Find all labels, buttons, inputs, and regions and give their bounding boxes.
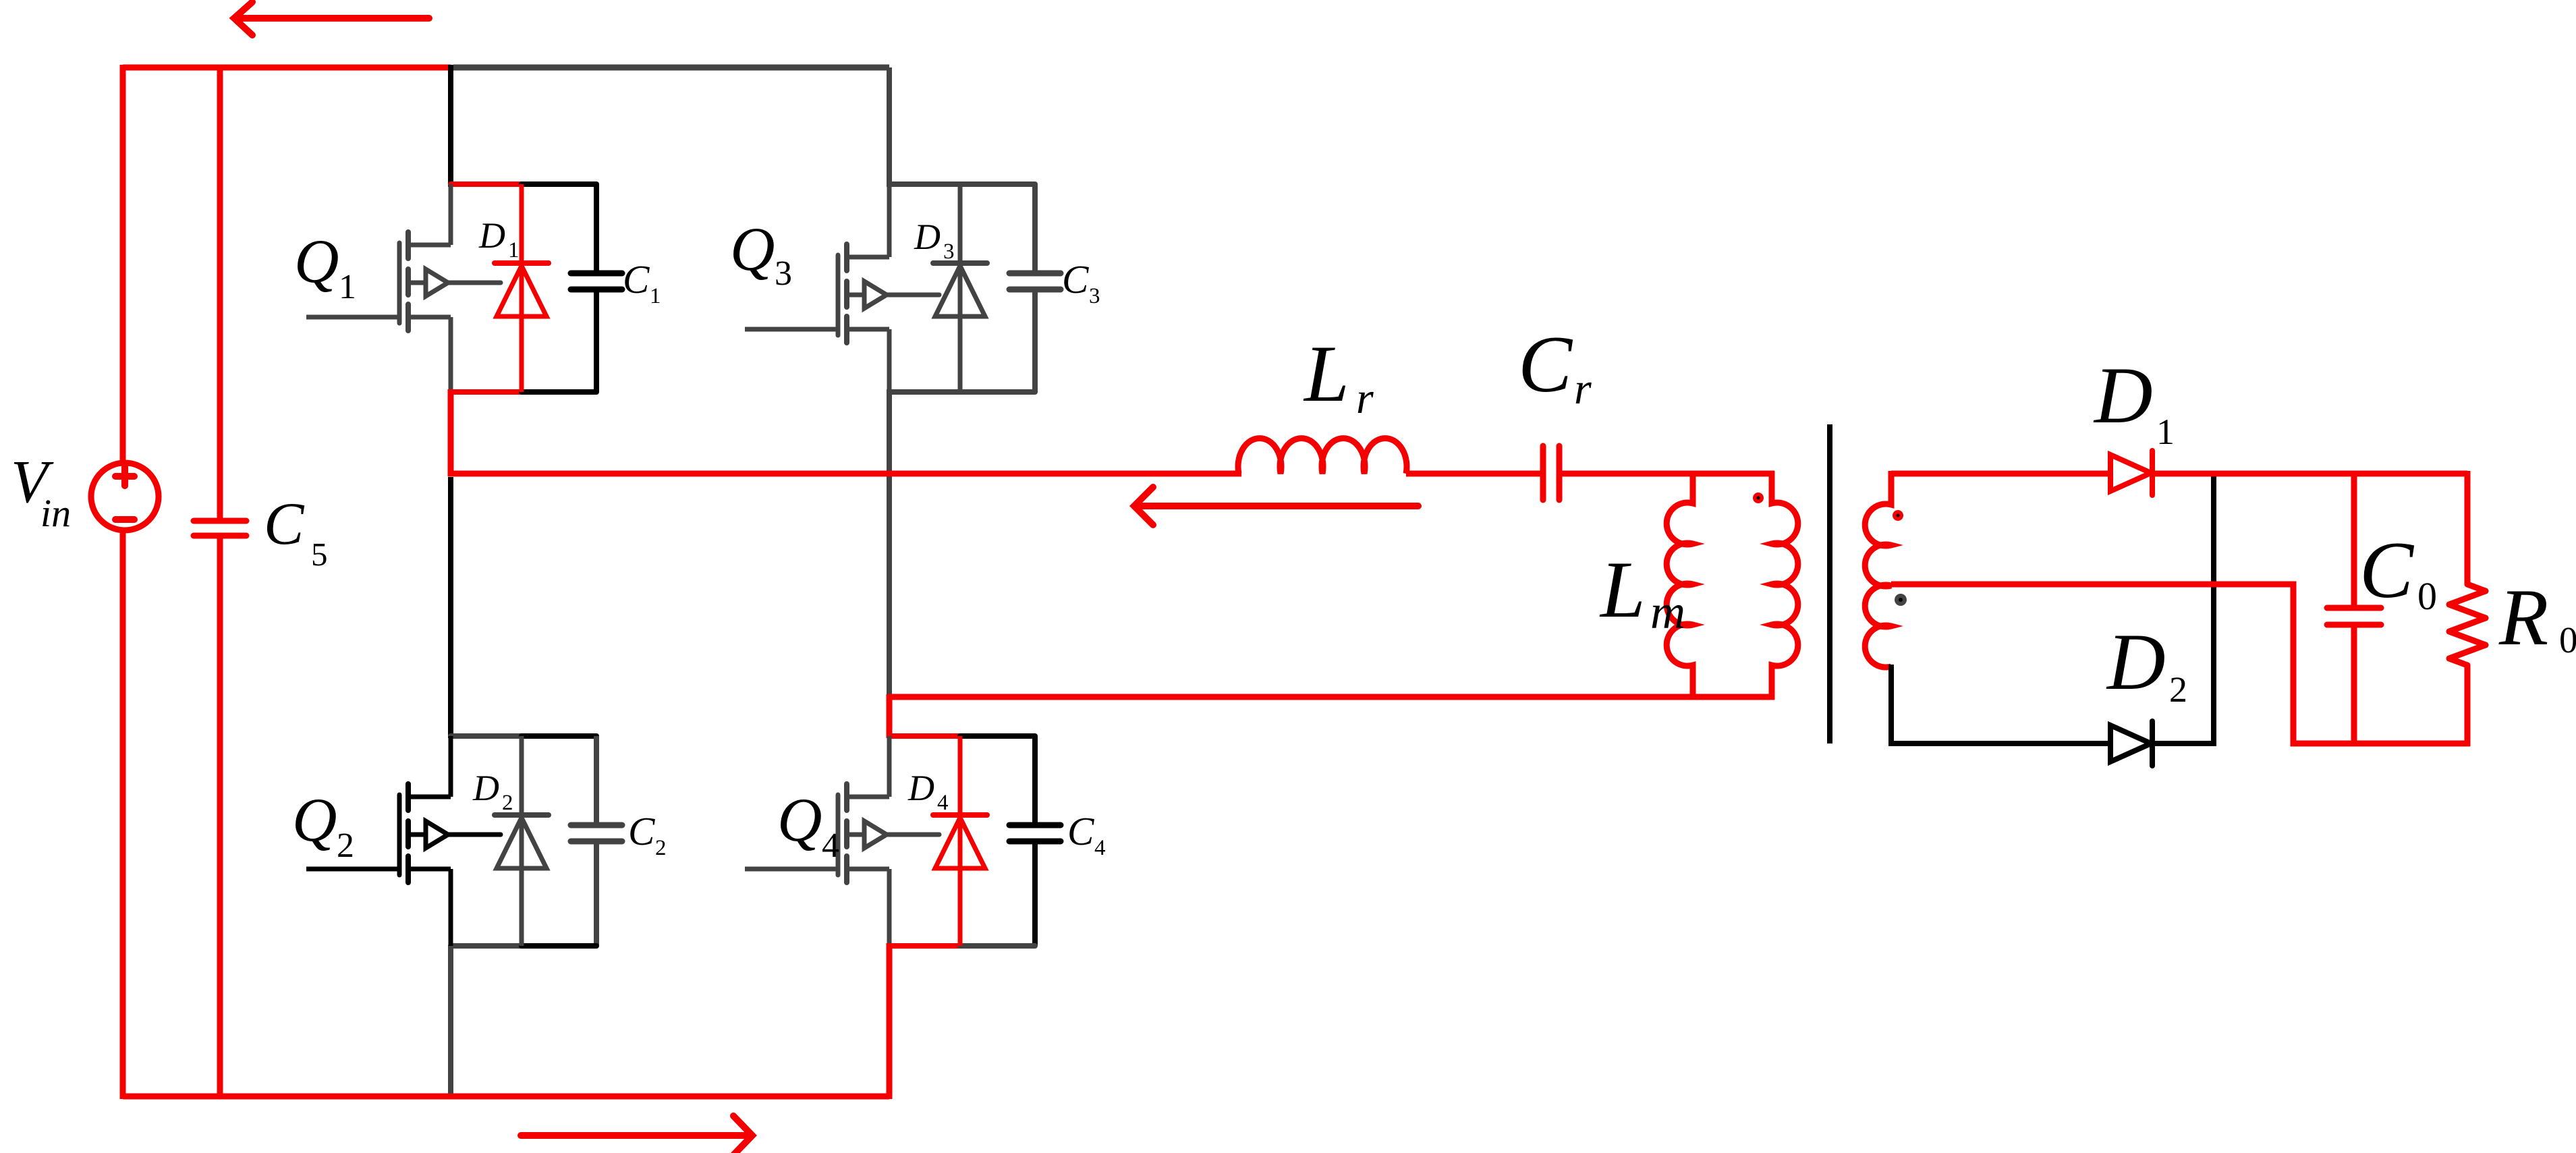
transistor channel ticks bbox=[844, 784, 849, 882]
wire: Q3 cell bottom edge right bbox=[960, 389, 1035, 395]
transistor Q2 source vertical bbox=[449, 869, 453, 946]
wire: Cr to transformer primary (red) bbox=[1562, 471, 1774, 477]
wire: center tap to output return (red) bbox=[1891, 584, 2470, 743]
svg-text:3: 3 bbox=[1089, 284, 1100, 308]
transistor body stub with arrow bbox=[411, 833, 501, 837]
current arrow, bottom (pointing right) bbox=[521, 1116, 752, 1153]
svg-text:5: 5 bbox=[311, 536, 328, 573]
svg-text:C: C bbox=[264, 491, 305, 557]
transistor gate lead wire bbox=[745, 867, 838, 872]
svg-text:2: 2 bbox=[2169, 669, 2187, 710]
transistor Q3 drain vertical bbox=[887, 184, 892, 257]
wire: Q4 cell top edge left bbox=[889, 733, 961, 739]
svg-text:C: C bbox=[1062, 257, 1089, 302]
transistor gate lead wire bbox=[745, 327, 838, 332]
Vin minus sign bbox=[115, 516, 134, 523]
svg-text:Q: Q bbox=[730, 215, 775, 283]
svg-text:L: L bbox=[1303, 329, 1349, 418]
transistor Q4 drain vertical bbox=[887, 736, 892, 797]
svg-text:1: 1 bbox=[508, 238, 520, 262]
wire: Lr to Cr (red) bbox=[1406, 471, 1540, 477]
wire: Q3 cell right side upper bbox=[1032, 184, 1038, 273]
wire: Q2 cell bottom edge left bbox=[451, 943, 523, 949]
svg-text:D: D bbox=[2106, 617, 2166, 706]
wire: Q3 cell right side lower bbox=[1032, 292, 1038, 392]
svg-text:4: 4 bbox=[937, 791, 949, 815]
svg-text:Q: Q bbox=[292, 785, 337, 854]
svg-text:r: r bbox=[1574, 364, 1592, 414]
wire: Q4 cell right side lower bbox=[1032, 844, 1038, 946]
wire: bottom DC bus rail (red) bbox=[123, 1094, 889, 1100]
transistor drain stub bbox=[849, 255, 889, 260]
primary polarity dot bbox=[1753, 493, 1764, 503]
svg-text:C: C bbox=[623, 257, 650, 302]
svg-text:2: 2 bbox=[502, 791, 513, 815]
capacitor plates of Q4 snubber bbox=[1009, 825, 1061, 841]
wire: Q2 cell right side lower bbox=[594, 844, 599, 946]
transistor source stub bbox=[849, 327, 889, 332]
secondary polarity dot top (red) bbox=[1893, 510, 1903, 521]
wire: rectifier cathode bus vertical (black) bbox=[2211, 474, 2216, 743]
output capacitor C0 bottom lead bbox=[2351, 627, 2357, 743]
svg-text:L: L bbox=[1599, 544, 1646, 634]
svg-text:C: C bbox=[2359, 525, 2415, 615]
wire: secondary bottom stub (black) bbox=[1891, 665, 2216, 743]
magnetizing inductance Lm winding bbox=[1667, 474, 1693, 697]
wire: node B rail to transformer bottom (red) bbox=[889, 694, 1774, 700]
transistor drain stub bbox=[849, 795, 889, 799]
output capacitor C0 top lead bbox=[2351, 474, 2357, 605]
svg-text:D: D bbox=[907, 768, 934, 808]
wire: top DC bus rail, gray segment (to Q3 drain) bbox=[453, 65, 889, 71]
load resistor R0 bbox=[2449, 471, 2486, 746]
wire: Q2 cell top edge left bbox=[451, 733, 523, 739]
capacitor C5 plates bbox=[194, 521, 246, 536]
transistor source stub bbox=[411, 867, 451, 872]
svg-text:C: C bbox=[628, 809, 655, 853]
transistor Q2 drain vertical bbox=[449, 736, 453, 797]
body diode lead of Q3 bbox=[958, 184, 963, 392]
svg-text:D: D bbox=[914, 217, 941, 257]
body diode triangle of Q4 bbox=[935, 818, 985, 868]
transistor drain stub bbox=[411, 795, 451, 799]
transistor gate lead wire bbox=[306, 867, 399, 872]
wire: Q3 cell top edge left bbox=[889, 181, 961, 187]
voltage source Vin circle bbox=[91, 463, 159, 530]
svg-text:0: 0 bbox=[2559, 619, 2576, 660]
svg-text:4: 4 bbox=[822, 826, 839, 865]
body diode triangle of Q2 bbox=[497, 818, 547, 868]
svg-text:2: 2 bbox=[337, 826, 354, 865]
transistor body stub with arrow bbox=[849, 293, 939, 298]
capacitor plates of Q2 snubber bbox=[571, 825, 622, 841]
wire: Vin negative lead (vertical) bbox=[120, 532, 126, 1099]
transistor gate electrode bbox=[836, 795, 841, 875]
svg-text:0: 0 bbox=[2417, 574, 2437, 618]
body diode triangle of Q3 bbox=[935, 266, 985, 316]
transformer secondary winding lower half (red) bbox=[1865, 585, 1891, 667]
capacitor plates of Q1 snubber bbox=[571, 273, 622, 289]
resonant capacitor Cr plates bbox=[1543, 446, 1559, 500]
transistor drain stub bbox=[411, 243, 451, 248]
transistor body stub with arrow bbox=[849, 833, 939, 837]
wire: Q3 drain feeder from top rail (gray) bbox=[887, 67, 892, 187]
wire: Q4 source to bottom rail (red) bbox=[887, 943, 893, 1099]
rectifier diode D2 bbox=[2110, 725, 2151, 762]
body diode cathode bar of Q4 bbox=[933, 812, 987, 818]
transistor gate lead wire bbox=[306, 315, 399, 320]
wire: Q1 cell top edge right bbox=[522, 181, 596, 187]
rectifier diode D1 bbox=[2110, 455, 2151, 491]
wire: Q2 drain feeder (black vertical from node A) bbox=[448, 477, 453, 738]
transformer core bbox=[1827, 424, 1832, 743]
capacitor plates of Q3 snubber bbox=[1009, 273, 1061, 289]
transformer secondary winding upper half (red) bbox=[1865, 471, 1891, 586]
capacitor C5 bottom lead bbox=[217, 538, 223, 1096]
current arrow, middle (pointing left) bbox=[1134, 487, 1418, 525]
body diode cathode bar of Q2 bbox=[495, 812, 549, 818]
wire: top DC bus rail, red segment (Vin+ to Q1 drain) bbox=[123, 65, 451, 71]
transistor gate electrode bbox=[397, 243, 402, 323]
svg-text:R: R bbox=[2498, 572, 2548, 662]
svg-text:4: 4 bbox=[1094, 836, 1106, 860]
wire: Q1 drain feeder from top rail (black) bbox=[448, 65, 453, 187]
svg-text:Q: Q bbox=[777, 785, 822, 854]
svg-text:m: m bbox=[1650, 585, 1685, 639]
wire: Q1 cell bottom edge left bbox=[451, 389, 523, 395]
svg-text:2: 2 bbox=[655, 836, 667, 860]
wire: Q2 cell top edge right bbox=[522, 733, 596, 739]
body diode cathode bar of Q1 bbox=[495, 260, 549, 266]
transistor channel ticks bbox=[405, 784, 411, 882]
transistor body stub with arrow bbox=[411, 281, 501, 285]
wire: node B feeder to Q4 drain (red) bbox=[887, 694, 893, 738]
svg-text:in: in bbox=[40, 491, 71, 535]
wire: Q1 cell bottom edge right bbox=[522, 389, 596, 395]
wire: Q2 cell bottom edge right bbox=[522, 943, 596, 949]
transistor Q4 source vertical bbox=[887, 869, 892, 946]
transistor Q1 drain vertical bbox=[449, 184, 453, 245]
resonant inductor Lr bbox=[1238, 439, 1407, 474]
body diode lead of Q4 bbox=[958, 736, 963, 946]
svg-text:3: 3 bbox=[775, 254, 792, 293]
wire: Q2 cell right side upper bbox=[594, 736, 599, 824]
transistor source stub bbox=[849, 867, 889, 872]
wire: Q4 cell bottom edge left bbox=[889, 943, 961, 949]
body diode lead of Q1 bbox=[520, 184, 524, 392]
svg-text:D: D bbox=[472, 768, 499, 808]
transistor gate electrode bbox=[836, 255, 841, 335]
svg-text:1: 1 bbox=[2156, 412, 2175, 452]
wire: Q4 cell top edge right bbox=[960, 733, 1035, 739]
wire: mid rail node A to resonant inductor (red) bbox=[448, 471, 1241, 477]
secondary polarity dot bottom (gray) bbox=[1895, 594, 1907, 606]
transformer primary winding bbox=[1772, 471, 1798, 700]
transistor gate electrode bbox=[397, 795, 402, 875]
wire: Q3 cell bottom edge left bbox=[889, 389, 961, 395]
svg-text:1: 1 bbox=[650, 284, 661, 308]
svg-text:D: D bbox=[2093, 350, 2153, 440]
wire: Q1 cell top edge left bbox=[451, 181, 523, 187]
wire: node A vertical (Q1 source to mid rail, red) bbox=[448, 389, 454, 476]
transistor channel ticks bbox=[844, 244, 849, 343]
wire: Q2 source to bottom rail (gray) bbox=[448, 946, 453, 1094]
svg-text:C: C bbox=[1067, 809, 1094, 853]
wire: Q1 cell right side upper bbox=[594, 184, 599, 273]
body diode lead of Q2 bbox=[520, 736, 524, 946]
wire: Q4 cell right side upper bbox=[1032, 736, 1038, 824]
svg-text:3: 3 bbox=[943, 240, 955, 264]
transistor source stub bbox=[411, 315, 451, 320]
transistor Q1 source vertical bbox=[449, 317, 453, 392]
transistor channel ticks bbox=[405, 232, 411, 331]
svg-text:D: D bbox=[478, 215, 505, 256]
transistor Q3 source vertical bbox=[887, 329, 892, 392]
wire: Q3 source to node B vertical (gray) bbox=[887, 389, 892, 697]
wire: Q3 cell top edge right bbox=[960, 181, 1035, 187]
wire: secondary top to output (red) bbox=[1891, 471, 2467, 477]
svg-text:1: 1 bbox=[339, 268, 356, 306]
capacitor C5 top lead bbox=[217, 67, 223, 518]
svg-text:r: r bbox=[1356, 374, 1374, 423]
svg-text:Q: Q bbox=[294, 227, 339, 296]
wire: Q4 cell bottom edge right bbox=[960, 943, 1035, 949]
body diode triangle of Q1 bbox=[497, 266, 547, 316]
current arrow, top (pointing left) bbox=[234, 2, 429, 35]
Vin plus sign bbox=[115, 467, 134, 486]
wire: Vin positive lead (vertical) bbox=[120, 65, 126, 464]
wire: Q1 cell right side lower bbox=[594, 292, 599, 392]
svg-text:C: C bbox=[1518, 319, 1573, 409]
output capacitor C0 plates bbox=[2327, 608, 2381, 625]
body diode cathode bar of Q3 bbox=[933, 260, 987, 266]
